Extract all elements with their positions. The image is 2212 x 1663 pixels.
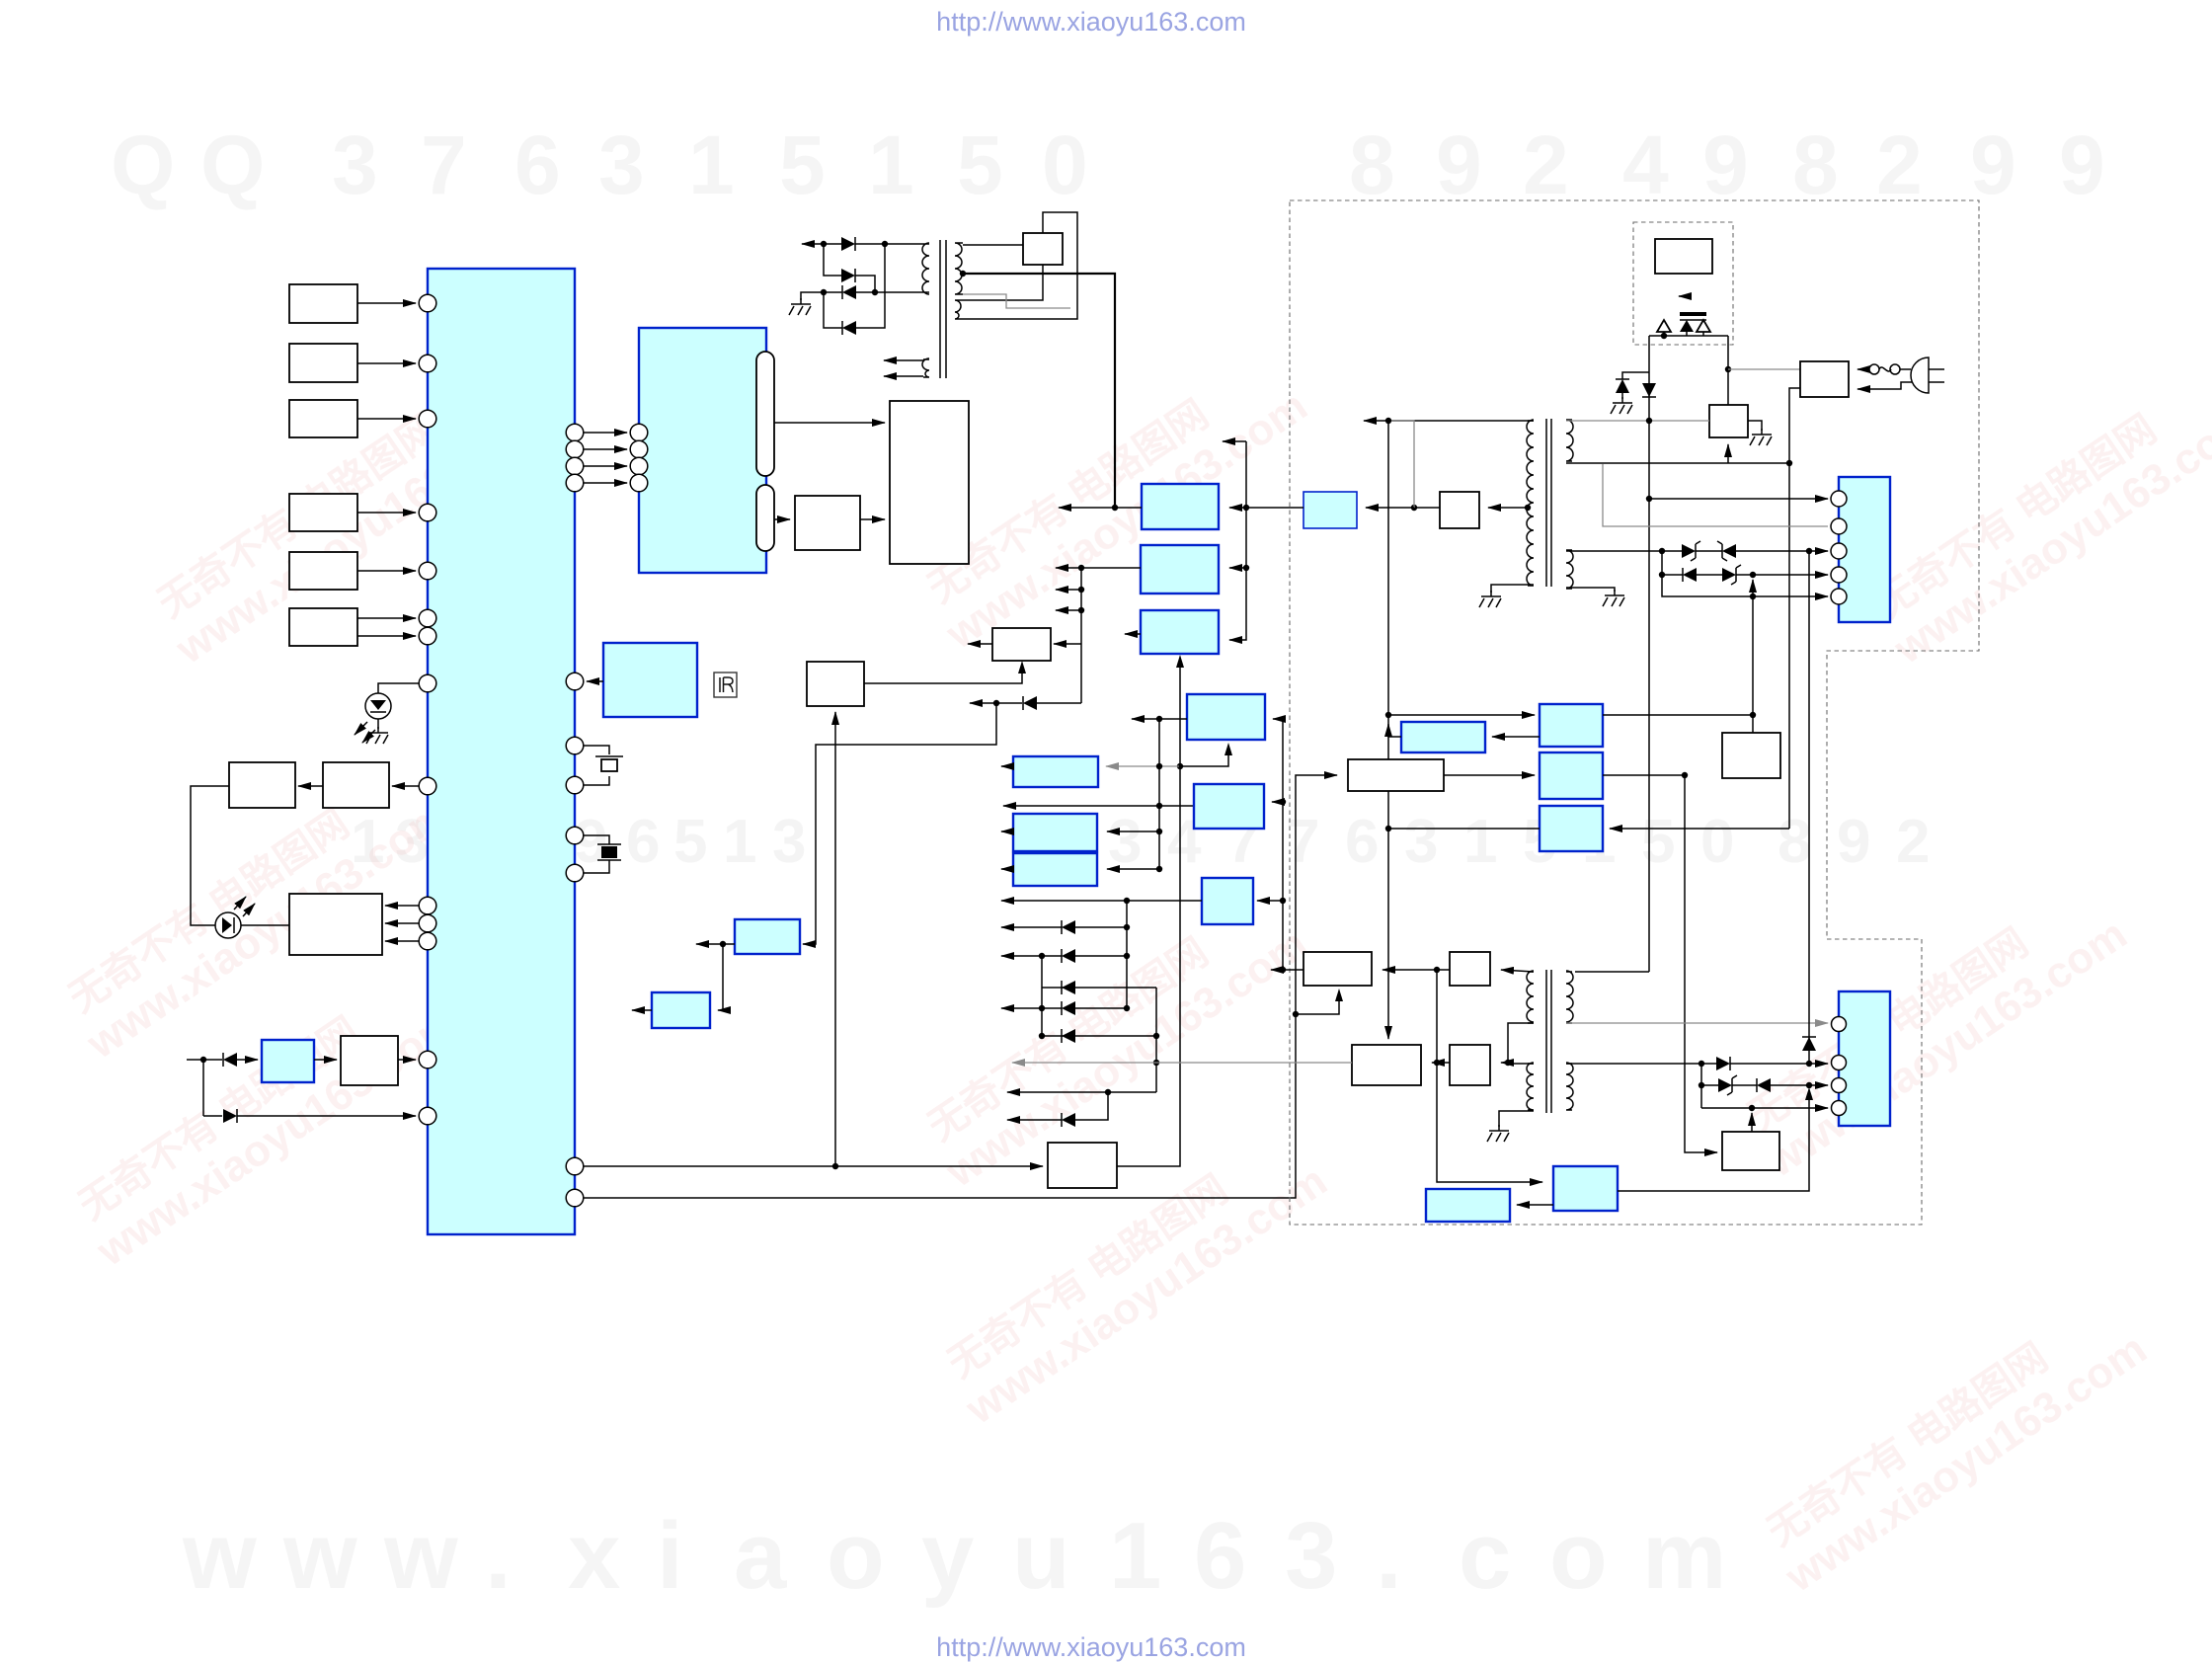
IC IC101 system control micom <box>428 269 575 1234</box>
wire to CN pin4 <box>1809 574 1828 576</box>
node primary tap <box>1525 505 1531 511</box>
node junction <box>1078 565 1084 571</box>
node junction <box>1806 1061 1812 1067</box>
pin <box>566 424 584 441</box>
wire M input from right <box>1273 718 1283 720</box>
node center tap <box>960 271 966 277</box>
transformer T601 secondary lower coil <box>1566 550 1573 589</box>
node junction <box>1646 496 1652 502</box>
wire Y right to ground <box>1748 421 1762 431</box>
wire to transformer T201 primary <box>875 291 917 293</box>
node junction <box>1806 1082 1812 1088</box>
diode D202 <box>824 244 841 276</box>
node junction <box>1280 967 1286 973</box>
transformer T601 core <box>1545 419 1547 587</box>
wire T602 sec lower to pin2 <box>1566 1063 1701 1065</box>
transformer T201 primary coil <box>917 243 929 294</box>
pin <box>566 864 584 882</box>
diode D203 <box>824 291 842 293</box>
pin <box>419 609 436 627</box>
wire P input <box>1107 831 1159 832</box>
node junction <box>1156 763 1162 769</box>
node junction <box>1385 712 1391 718</box>
node junction <box>1698 1082 1704 1088</box>
wire arrow out <box>970 702 996 704</box>
wire secondary top to sense box <box>963 244 1023 246</box>
diode ladder row3 <box>1042 987 1075 989</box>
zener ZD602 <box>1696 550 1722 552</box>
pin <box>566 440 584 458</box>
diode D104 <box>203 1115 222 1117</box>
wire stub arrow a <box>1056 589 1081 591</box>
wire T602 primary top to Z2 <box>1501 970 1534 972</box>
wire arrow tip <box>1364 420 1388 422</box>
transistor Q601 substrate triangle <box>1657 320 1671 332</box>
wire T601 sec lower top lead <box>1566 550 1662 552</box>
node junction <box>1749 1105 1755 1111</box>
node junction <box>1698 1061 1704 1067</box>
wire IC to DSP bus b <box>584 448 627 450</box>
pin <box>1832 1101 1847 1116</box>
wire pin to DRV c <box>385 940 419 942</box>
wire T601 primary bottom to ground <box>1491 585 1534 593</box>
pin <box>566 457 584 475</box>
wire N input gray <box>1106 765 1179 767</box>
wire N out arrow <box>1001 765 1013 767</box>
wire clock to MUTE bottom <box>864 666 1022 683</box>
block osc Z1 <box>1303 952 1372 986</box>
wire IC to DSP bus d <box>584 482 627 484</box>
diode ladder row4 <box>1075 1007 1127 1009</box>
wire arrow out <box>696 943 723 945</box>
diode D608 <box>1732 1084 1757 1086</box>
pin <box>419 562 436 580</box>
block PWM controller <box>1655 239 1712 274</box>
pin <box>630 457 648 475</box>
svg-text:http://www.xiaoyu163.com: http://www.xiaoyu163.com <box>936 1632 1246 1662</box>
block DRV <box>289 894 382 955</box>
svg-text:http://www.xiaoyu163.com: http://www.xiaoyu163.com <box>936 7 1246 37</box>
pin <box>1832 1056 1847 1070</box>
wire ladder bus left <box>1041 956 1043 1036</box>
block BUF <box>341 1036 398 1085</box>
pin <box>419 627 436 645</box>
wire KEY6 to pin a <box>357 617 416 619</box>
transistor Q601 source triangle <box>1680 320 1694 332</box>
wire strip2 to buffer <box>774 518 790 520</box>
node junction <box>1293 1011 1299 1017</box>
block regulator P <box>1013 814 1097 851</box>
node junction <box>1124 924 1130 930</box>
pin <box>630 440 648 458</box>
node junction <box>821 289 827 295</box>
transformer T601 secondary upper coil <box>1566 420 1573 461</box>
pin <box>419 355 436 372</box>
block regulator K2 <box>1141 545 1219 594</box>
node junction <box>200 1057 206 1063</box>
wire diode to RESET <box>237 1059 258 1061</box>
ground <box>1479 591 1501 607</box>
connector CN601 <box>1839 477 1890 622</box>
wire arrow tip <box>1271 969 1283 971</box>
node junction <box>1385 418 1391 424</box>
wire RESET to BUF <box>314 1059 337 1061</box>
block regulator M <box>1187 694 1265 740</box>
node junction <box>1078 607 1084 613</box>
wire reg G out arrow <box>632 1009 652 1011</box>
wire X to T <box>1414 507 1440 509</box>
diode ladder row6 <box>1075 1092 1108 1120</box>
wire P out arrow <box>1001 831 1013 832</box>
block KEY3 <box>289 400 357 437</box>
diode D601 <box>1616 379 1629 393</box>
wire ladder bottom row <box>1108 1091 1156 1093</box>
switching block dashed box <box>1633 222 1733 345</box>
wire into GG2 <box>1444 774 1535 776</box>
wire junction down <box>202 1060 204 1116</box>
diode ladder row1 <box>1075 926 1127 928</box>
pin <box>566 776 584 794</box>
remote icon R <box>714 673 737 697</box>
block driver Z4 <box>1450 1045 1490 1085</box>
wire M left lead <box>1159 718 1187 720</box>
wire MUTE out arrow <box>968 643 992 645</box>
diode ladder row5 <box>1042 1035 1075 1037</box>
wire KEY2 to pin <box>357 362 416 364</box>
node junction <box>1411 505 1417 511</box>
pin <box>419 294 436 312</box>
wire pin5 row <box>1662 575 1828 596</box>
block servo buffer <box>807 662 864 706</box>
node junction <box>1153 1060 1159 1066</box>
block regulator G <box>652 992 710 1028</box>
ground <box>789 298 811 315</box>
node junction <box>1750 572 1756 578</box>
wire sense bottom lead <box>966 265 1043 300</box>
wire CC up to pin4 row <box>1751 1113 1753 1132</box>
node junction <box>1124 953 1130 959</box>
wire Z2 to Z1 <box>1382 969 1437 971</box>
crystal X101 <box>584 746 609 785</box>
wire tap to block X <box>1488 507 1528 509</box>
wire to pin2 <box>1809 1063 1828 1065</box>
wire Q out arrow <box>1001 868 1013 870</box>
node junction <box>1725 366 1731 372</box>
wire secondary gray lead <box>963 294 1070 308</box>
diode D204 <box>824 292 842 328</box>
wire arrow out <box>1001 900 1127 902</box>
block KEY2 <box>289 344 357 382</box>
wire column to CC <box>1685 775 1717 1152</box>
IR receiver block <box>603 643 697 717</box>
transformer T602 core <box>1545 970 1547 1113</box>
block line filter FF <box>1800 361 1849 397</box>
wire to pin3 <box>1809 1084 1828 1086</box>
diode D603 <box>1662 574 1683 576</box>
node junction <box>1806 548 1812 554</box>
wire ladder bus right <box>1126 901 1128 1008</box>
block AMP2 <box>323 762 389 808</box>
wire AA to BB <box>1517 1204 1553 1206</box>
wire GG1 to opto HH <box>1492 736 1540 738</box>
wire to CN pin3 <box>1809 550 1828 552</box>
wire to reg GG1 <box>1388 714 1535 716</box>
wire pin to AMP2 <box>392 785 419 787</box>
wire down to 5V reg E <box>803 703 996 944</box>
wire power detect input <box>187 1059 203 1061</box>
wire stub arrow b <box>1056 609 1081 611</box>
zener ZD604 <box>1701 1084 1718 1086</box>
wire AMP1 to LED D102 <box>191 786 229 925</box>
diode D103 <box>203 1059 222 1061</box>
wire pin to LED D101 <box>378 683 419 693</box>
ground <box>366 727 388 744</box>
pin <box>566 474 584 492</box>
transformer T201 aux winding <box>922 358 929 377</box>
DSP output port strip 2 <box>756 485 774 551</box>
zener ZD601 <box>1662 550 1682 552</box>
node junction <box>1434 967 1440 973</box>
wire K1 right arrow <box>1229 507 1246 509</box>
node junction <box>1124 898 1130 904</box>
transformer T602 primary lower coil <box>1527 1063 1534 1110</box>
pin <box>419 410 436 428</box>
pin <box>1831 589 1847 604</box>
pin <box>566 827 584 844</box>
pin <box>566 1157 584 1175</box>
wire K2 left lead <box>1081 567 1141 569</box>
wire pin to DRV b <box>385 922 419 924</box>
block regulator Q <box>1013 853 1097 886</box>
wire aux lead arrow b <box>884 375 923 377</box>
wire row y816 <box>1159 805 1194 807</box>
watermark pink diagonal stamps <box>52 344 2212 1602</box>
wire GG1 out to column <box>1603 714 1753 716</box>
svg-text:www.xiaoyu163.com: www.xiaoyu163.com <box>182 1503 1726 1609</box>
wire arrow out left of node <box>1059 507 1115 509</box>
block KEY6 <box>289 608 357 646</box>
pin <box>419 932 436 950</box>
wire arrow out <box>1132 718 1159 720</box>
node junction <box>882 241 888 247</box>
fuse F601 <box>1857 368 1869 370</box>
block drive Z3 <box>1352 1045 1421 1085</box>
wire Z13 column down <box>1437 970 1542 1182</box>
pin <box>419 674 436 692</box>
wire T601 sec lower bottom to ground <box>1566 588 1615 592</box>
wire branch to reg M bottom <box>1180 748 1228 766</box>
pin <box>1831 518 1847 534</box>
wire Z4 left <box>1437 1062 1450 1064</box>
node junction <box>1750 712 1756 718</box>
wire plug neutral to filter <box>1857 382 1912 389</box>
block KEY1 <box>289 284 357 323</box>
wire aux lead arrow a <box>884 359 923 361</box>
block sense <box>1023 233 1063 265</box>
power supply dashed boundary <box>1290 200 1979 1225</box>
block regulator O <box>1194 784 1264 829</box>
node junction <box>1177 763 1183 769</box>
block filter T <box>1303 492 1357 528</box>
pin <box>566 737 584 754</box>
node junction <box>1434 1060 1440 1066</box>
pin <box>566 1189 584 1207</box>
wire Z1 left <box>1283 969 1303 971</box>
wire R out to ladder <box>1127 900 1202 902</box>
wire bus to MUTE <box>1054 643 1081 645</box>
node junction <box>1682 772 1688 778</box>
block regulator K1 <box>1142 484 1219 529</box>
pin <box>419 777 436 795</box>
wire arrow tip <box>1223 440 1246 442</box>
wire MOSFET drain vertical <box>1727 336 1729 405</box>
wire T601 sec row4 <box>1661 551 1663 575</box>
wire column to DD <box>1752 580 1754 733</box>
diode D607 vertical <box>1808 551 1810 1064</box>
transformer T602 secondary upper coil <box>1566 971 1573 1023</box>
transformer T602 secondary lower coil <box>1566 1063 1573 1110</box>
block relay driver CC <box>1722 1132 1779 1170</box>
connector CN602 <box>1839 991 1890 1126</box>
block MUTE <box>992 628 1051 661</box>
wire supply riser to K3 <box>1229 441 1246 640</box>
wire sense loop <box>966 212 1077 319</box>
wire IC pin to switch box S <box>584 1165 1043 1167</box>
node junction <box>1039 1005 1045 1011</box>
block KEY4 <box>289 494 357 531</box>
diode D602 on rail <box>1642 383 1656 397</box>
wire down to reg G <box>718 944 723 1010</box>
node junction <box>821 241 827 247</box>
node junction <box>1505 1060 1511 1066</box>
wire KEY6 to pin b <box>357 635 416 637</box>
wire pin4 row <box>1701 1107 1828 1109</box>
ground <box>1750 429 1772 445</box>
wire MOSFET source bus <box>1649 332 1728 336</box>
wire riser to servo buffer <box>834 712 836 1166</box>
pin <box>630 424 648 441</box>
node junction <box>720 941 726 947</box>
block regulator GG3 <box>1540 806 1603 851</box>
wire gray to CN pin2 <box>1603 464 1828 526</box>
wire K1 left lead <box>1115 507 1142 509</box>
node junction <box>1243 565 1249 571</box>
wire S output riser <box>1117 660 1180 1166</box>
transformer T201 secondary coil <box>955 243 963 294</box>
wire B+ column <box>1387 421 1389 1039</box>
AC plug <box>1911 357 1929 393</box>
crystal X102 <box>584 835 609 873</box>
pin <box>1831 543 1847 559</box>
wire K3 out arrow <box>1125 633 1141 635</box>
pin <box>419 504 436 521</box>
node junction <box>1039 953 1045 959</box>
wire HH feedback <box>1388 724 1401 737</box>
wire arrow out left <box>1056 567 1081 569</box>
wire to driver Z4 <box>1501 1062 1508 1064</box>
node junction <box>1659 572 1665 578</box>
wire IC pin to power supply <box>584 775 1337 1198</box>
wire LED to ground <box>377 719 379 729</box>
wire to ground <box>801 292 824 300</box>
node junction <box>1039 1033 1045 1039</box>
pin <box>566 673 584 690</box>
block regulator E <box>735 919 800 954</box>
wire buffer to FL driver <box>860 518 885 520</box>
pin <box>419 897 436 914</box>
wire pin to DRV a <box>385 905 419 907</box>
wire branch to zener ground <box>1622 372 1649 379</box>
wire K2 right arrow <box>1229 567 1246 569</box>
block switch S <box>1048 1143 1117 1188</box>
wire gray feedback up <box>1391 421 1414 508</box>
block feedback X <box>1440 492 1479 528</box>
block RESET <box>262 1040 314 1082</box>
pin <box>419 1107 436 1125</box>
wire IR to pin <box>587 680 603 682</box>
wire T602 primary bottom to ground <box>1499 1111 1534 1127</box>
node junction <box>832 1163 838 1169</box>
node junction <box>1156 829 1162 834</box>
node junction <box>1385 826 1391 831</box>
wire T602 primary leads joined <box>1508 1023 1534 1064</box>
wire reg E out <box>723 943 735 945</box>
wire gray to line filter <box>1728 368 1800 370</box>
node junction <box>1659 548 1665 554</box>
block detector DD <box>1722 733 1780 778</box>
pin <box>630 474 648 492</box>
LED D102 <box>215 912 241 938</box>
wire KEY5 to pin <box>357 570 416 572</box>
block regulator GG2 <box>1540 752 1603 799</box>
wire Y bottom feed <box>1727 444 1729 463</box>
transformer T601 primary coil <box>1527 420 1534 586</box>
wire AMP2 to AMP1 <box>298 785 323 787</box>
node junction <box>1156 803 1162 809</box>
wire heavy tap line <box>963 274 1115 508</box>
wire rail down to T602 <box>1575 971 1649 973</box>
node junction <box>1112 505 1118 511</box>
wire AA out up to pin3 node <box>1618 1092 1809 1191</box>
wire diode D104 to pin <box>237 1115 416 1117</box>
wire rail to CN pin1 <box>1649 498 1828 500</box>
transistor Q601 drain triangle <box>1697 320 1710 332</box>
DSP output port strip 1 <box>756 352 774 476</box>
wire IC to DSP bus a <box>584 432 627 434</box>
LED D102 light arrows <box>234 897 246 910</box>
node junction <box>1661 333 1667 339</box>
diode D606 <box>1701 1063 1716 1065</box>
node junction <box>993 700 999 706</box>
wire KEY1 to pin <box>357 302 416 304</box>
node junction <box>1243 505 1249 511</box>
ground <box>1611 397 1632 414</box>
ground <box>1487 1125 1509 1142</box>
diode D205 row <box>996 702 1022 704</box>
wire T601 primary top lead <box>1388 420 1534 422</box>
block driver Z2 <box>1450 952 1490 986</box>
node junction <box>872 289 878 295</box>
pin <box>1832 1017 1847 1032</box>
block timer AA <box>1553 1166 1618 1211</box>
wire Z2 left <box>1437 969 1450 971</box>
block FL driver <box>890 401 969 564</box>
wire main rail left vertical <box>1648 336 1650 972</box>
node junction <box>1156 866 1162 872</box>
transformer T602 primary upper coil <box>1527 971 1534 1023</box>
transistor Q601 MOSFET gate bar <box>1680 312 1706 316</box>
wire T601 sec upper top gray <box>1566 420 1709 422</box>
